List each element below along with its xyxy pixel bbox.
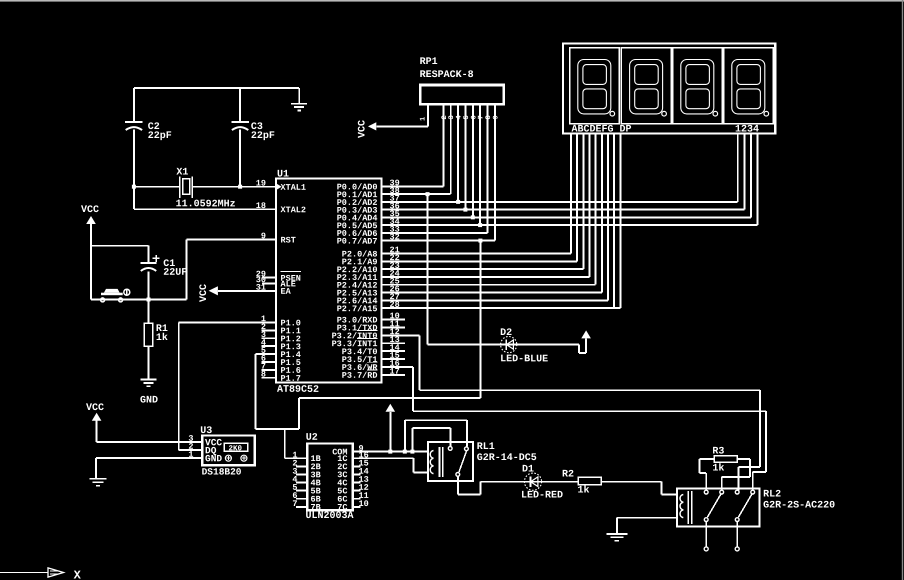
- svg-text:9: 9: [492, 115, 500, 119]
- svg-text:AT89C52: AT89C52: [277, 385, 319, 396]
- svg-text:GND: GND: [205, 453, 222, 464]
- svg-text:1234: 1234: [735, 125, 759, 136]
- svg-text:XTAL2: XTAL2: [280, 205, 306, 215]
- svg-text:EA: EA: [280, 287, 291, 297]
- svg-text:7B: 7B: [310, 503, 320, 513]
- svg-text:1k: 1k: [156, 332, 168, 344]
- svg-text:GND: GND: [140, 396, 158, 407]
- svg-text:X: X: [74, 569, 82, 580]
- svg-text:DS18B20: DS18B20: [202, 467, 242, 478]
- svg-text:G2R-14-DC5: G2R-14-DC5: [477, 453, 537, 464]
- svg-text:X1: X1: [176, 168, 188, 179]
- svg-text:VCC: VCC: [358, 120, 369, 138]
- svg-text:LED-RED: LED-RED: [521, 491, 563, 502]
- svg-text:LED-BLUE: LED-BLUE: [500, 354, 548, 365]
- svg-text:ULN2003A: ULN2003A: [305, 511, 353, 522]
- svg-text:VCC: VCC: [86, 403, 104, 414]
- svg-text:R3: R3: [712, 447, 724, 458]
- svg-text:D1: D1: [522, 465, 534, 476]
- svg-text:P2.7/A15: P2.7/A15: [337, 304, 378, 314]
- svg-text:RP1: RP1: [420, 57, 438, 68]
- svg-text:22UF: 22UF: [163, 268, 187, 279]
- svg-text:22pF: 22pF: [148, 131, 172, 142]
- svg-text:22pF: 22pF: [251, 131, 275, 142]
- svg-text:D2: D2: [500, 328, 512, 339]
- svg-text:RST: RST: [280, 236, 295, 246]
- svg-text:7: 7: [292, 499, 297, 509]
- svg-text:ABCDEFG DP: ABCDEFG DP: [571, 125, 631, 136]
- svg-text:U2: U2: [306, 433, 318, 444]
- svg-text:COM: COM: [332, 447, 347, 457]
- svg-text:2K0: 2K0: [228, 444, 242, 453]
- svg-text:11.0592MHz: 11.0592MHz: [176, 199, 236, 210]
- svg-text:7C: 7C: [337, 503, 347, 513]
- svg-text:1k: 1k: [712, 463, 724, 475]
- svg-text:VCC: VCC: [199, 284, 210, 302]
- svg-text:P1.7: P1.7: [280, 374, 300, 384]
- svg-text:RL2: RL2: [763, 490, 781, 501]
- svg-text:1: 1: [420, 117, 428, 121]
- svg-text:10: 10: [358, 499, 368, 509]
- svg-text:VCC: VCC: [81, 205, 99, 216]
- svg-text:RL1: RL1: [477, 442, 495, 453]
- svg-text:U3: U3: [200, 426, 212, 437]
- svg-text:U1: U1: [277, 170, 289, 181]
- svg-text:P0.7/AD7: P0.7/AD7: [337, 237, 378, 247]
- svg-text:R2: R2: [562, 470, 574, 481]
- svg-text:P3.7/RD: P3.7/RD: [342, 371, 378, 381]
- svg-text:G2R-2S-AC220: G2R-2S-AC220: [763, 501, 835, 512]
- svg-text:1k: 1k: [577, 485, 589, 497]
- svg-text:XTAL1: XTAL1: [280, 183, 306, 193]
- svg-text:RESPACK-8: RESPACK-8: [420, 70, 474, 81]
